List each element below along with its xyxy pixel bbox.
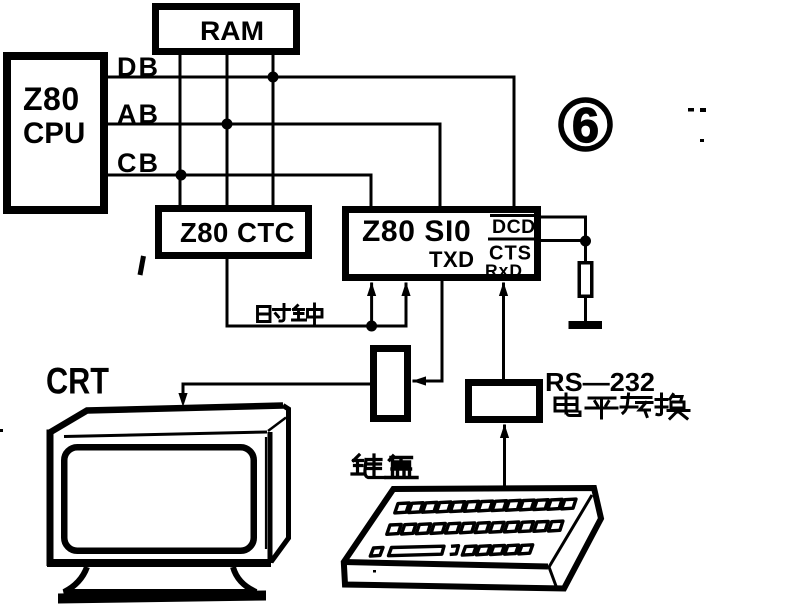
CRT screen bbox=[64, 447, 254, 551]
wire DB drop to SIO bbox=[513, 77, 516, 206]
CRT right inner bezel line bbox=[265, 437, 267, 549]
Z80 SIO box bbox=[346, 210, 538, 278]
CRT bezel left edge bbox=[47, 430, 54, 567]
wire keyboard to RS232 bbox=[503, 426, 506, 489]
wire clock from CTC to SIO bbox=[227, 259, 406, 326]
label dianping zhuanhuan (level conversion) bbox=[555, 394, 689, 419]
wire DCD bbox=[539, 217, 586, 241]
svg-text:CPU: CPU bbox=[23, 117, 85, 150]
svg-text:RAM: RAM bbox=[200, 16, 264, 46]
svg-text:RS—232: RS—232 bbox=[545, 367, 655, 397]
wire CB drop to SIO bbox=[370, 175, 373, 206]
keyboard keys bbox=[370, 499, 576, 556]
svg-text:DCD: DCD bbox=[492, 216, 536, 238]
CRT bezel right edge bbox=[268, 432, 273, 563]
huan bbox=[656, 394, 689, 419]
ground bbox=[569, 321, 603, 329]
svg-text:Z80 SI0: Z80 SI0 bbox=[362, 215, 471, 248]
wire TXD to driver bbox=[414, 281, 442, 381]
svg-text:TXD: TXD bbox=[429, 247, 475, 272]
node dot on CB bbox=[176, 170, 187, 181]
clock label shizhong bbox=[258, 304, 323, 324]
CRT right back edge bbox=[271, 406, 289, 563]
keyboard front edge bbox=[344, 562, 548, 567]
wire resistor to ground bbox=[584, 296, 587, 323]
circled 6 bbox=[561, 100, 610, 149]
wire RAM vertical 1 bbox=[179, 55, 182, 205]
RS232 level converter box bbox=[469, 383, 540, 420]
CPU box U1 bbox=[7, 56, 104, 210]
keyboard front speck bbox=[373, 570, 376, 573]
stray mark 1 bbox=[140, 256, 144, 275]
svg-text:DB: DB bbox=[117, 52, 160, 82]
svg-text:CRT: CRT bbox=[46, 361, 109, 402]
driver box (video buffer) bbox=[374, 349, 408, 419]
wire CTS bbox=[539, 239, 586, 242]
arrow left into driver box bbox=[412, 376, 426, 385]
jian bbox=[352, 455, 384, 478]
keyboard label jianpan bbox=[352, 455, 417, 478]
CRT bezel bottom edge bbox=[47, 559, 271, 567]
zhong bbox=[293, 304, 323, 324]
CRT top face front edge bbox=[64, 432, 267, 437]
keyboard slab outline bbox=[344, 488, 601, 589]
ping bbox=[586, 398, 617, 418]
wire RAM vertical 3 bbox=[272, 55, 275, 205]
zhuan bbox=[621, 394, 652, 417]
resistor R1 bbox=[579, 263, 592, 297]
CRT pedestal base bbox=[58, 591, 266, 604]
keyboard top-right inner edge bbox=[549, 495, 592, 586]
stray speck d (left edge) bbox=[0, 429, 3, 432]
node dot on DB bbox=[268, 72, 279, 83]
CRT monitor back/top edge bbox=[49, 406, 283, 434]
svg-text:Z80: Z80 bbox=[23, 81, 80, 117]
svg-text:6: 6 bbox=[572, 99, 599, 153]
wire CB bus horizontal bbox=[108, 174, 371, 177]
wire AB drop to SIO bbox=[439, 124, 442, 206]
node dot on AB bbox=[222, 119, 233, 130]
svg-text:AB: AB bbox=[117, 99, 160, 129]
shi bbox=[258, 305, 290, 322]
arrow up into SIO clock 1 bbox=[367, 282, 376, 296]
stray speck b bbox=[700, 108, 706, 112]
wire AB bus horizontal bbox=[108, 123, 440, 126]
Z80 CTC box bbox=[159, 209, 309, 256]
arrow up into SIO RxD bbox=[499, 282, 508, 296]
arrow up into SIO clock 2 bbox=[401, 282, 410, 296]
svg-text:RxD: RxD bbox=[485, 261, 523, 281]
CRT corner bevel line bbox=[268, 418, 286, 432]
wire CTS to resistor bbox=[584, 241, 587, 262]
stray speck a bbox=[688, 108, 694, 112]
wire DB bus horizontal bbox=[108, 76, 514, 79]
pan bbox=[386, 456, 417, 478]
arrow up into RS232 box bbox=[500, 424, 509, 438]
wire driver to CRT bbox=[183, 384, 370, 395]
arrow down into CRT bbox=[178, 393, 187, 407]
svg-text:Z80 CTC: Z80 CTC bbox=[180, 217, 295, 248]
stray speck c bbox=[700, 139, 704, 142]
wire clock branch bbox=[370, 284, 373, 326]
svg-text:CB: CB bbox=[117, 148, 160, 178]
CRT pedestal bbox=[64, 567, 256, 592]
wire RAM vertical 2 bbox=[226, 55, 229, 205]
node dot on clock line bbox=[366, 321, 377, 332]
RAM box bbox=[156, 7, 297, 52]
dian bbox=[555, 394, 580, 416]
wire RxD from RS232 to SIO bbox=[502, 284, 505, 379]
node dot DCD/CTS junction bbox=[580, 236, 591, 247]
